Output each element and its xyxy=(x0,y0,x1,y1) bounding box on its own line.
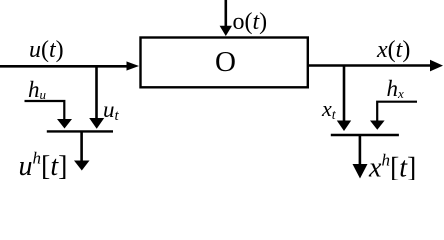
wire down from left bar xyxy=(80,131,83,161)
svg-text:O: O xyxy=(215,46,236,78)
wire h_u underline and drop xyxy=(25,101,65,120)
wire tap u_t down from input xyxy=(95,66,98,119)
arrowhead x_t xyxy=(337,121,351,132)
wire top o(t) input xyxy=(225,0,228,29)
wire input u(t) xyxy=(0,65,128,68)
arrowhead u^h[t] output xyxy=(74,161,90,171)
arrowhead h_x xyxy=(370,121,385,130)
arrowhead into box left xyxy=(127,61,140,70)
arrowhead into box top xyxy=(220,26,232,36)
wire output x(t) xyxy=(308,64,431,67)
arrowhead output right xyxy=(430,60,443,72)
arrowhead u_t xyxy=(89,118,104,129)
svg-text:uh[t]: uh[t] xyxy=(19,149,68,180)
block O box xyxy=(141,38,308,88)
svg-text:u(t): u(t) xyxy=(29,37,64,63)
sampler bar left xyxy=(47,130,113,132)
wire h_x underline and drop xyxy=(377,102,417,121)
wire down from right bar xyxy=(359,135,362,165)
svg-text:x(t): x(t) xyxy=(376,37,410,63)
svg-text:o(t): o(t) xyxy=(233,9,268,35)
svg-text:xh[t]: xh[t] xyxy=(368,151,416,181)
arrowhead h_u xyxy=(57,119,72,129)
arrowhead x^h[t] output xyxy=(353,164,368,179)
sampler bar right xyxy=(331,134,399,136)
wire tap x_t down from output xyxy=(343,66,346,122)
